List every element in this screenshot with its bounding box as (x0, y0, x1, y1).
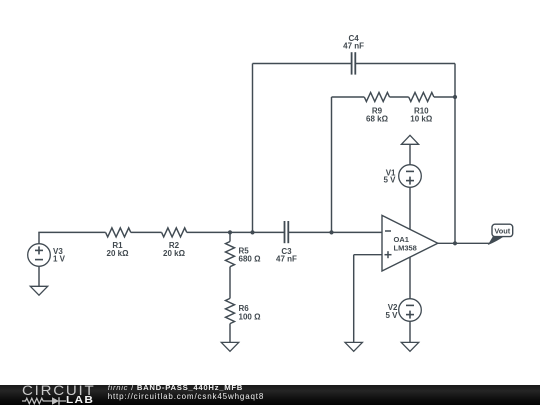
svg-text:10 kΩ: 10 kΩ (410, 114, 433, 123)
svg-text:680 Ω: 680 Ω (239, 254, 262, 263)
svg-text:1 V: 1 V (53, 254, 66, 263)
svg-text:20 kΩ: 20 kΩ (107, 249, 130, 258)
svg-text:68 kΩ: 68 kΩ (366, 114, 389, 123)
svg-text:5 V: 5 V (383, 176, 396, 185)
svg-text:47 nF: 47 nF (276, 255, 297, 264)
svg-text:5 V: 5 V (385, 311, 398, 320)
svg-text:100 Ω: 100 Ω (239, 313, 262, 322)
svg-text:20 kΩ: 20 kΩ (163, 249, 186, 258)
svg-text:47 nF: 47 nF (343, 42, 364, 51)
svg-text:LM358: LM358 (394, 243, 417, 252)
svg-text:Vout: Vout (494, 226, 510, 235)
